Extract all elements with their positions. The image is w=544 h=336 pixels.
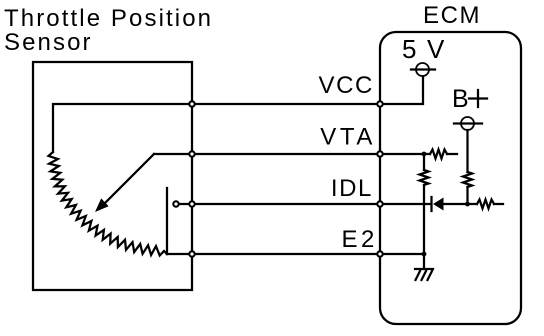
wire E2	[167, 253, 424, 255]
svg-text:VTA: VTA	[320, 124, 376, 151]
resistor R1 (VTA series, horizontal)	[430, 150, 447, 159]
svg-text:V: V	[427, 34, 445, 64]
potentiometer track R (curved zigzag)	[49, 152, 168, 256]
B+ supply symbol	[461, 117, 474, 130]
wire R1 stub	[447, 153, 457, 155]
svg-text:5: 5	[402, 34, 416, 64]
svg-text:ECM: ECM	[423, 2, 481, 29]
contact arm (idle switch)	[166, 188, 168, 254]
node E2 at sensor	[189, 251, 194, 256]
svg-text:Sensor: Sensor	[4, 29, 93, 56]
wire wiper diagonal	[103, 154, 154, 205]
node VTA at sensor	[189, 151, 194, 156]
junction dot E2-ground	[422, 252, 427, 257]
junction dot VTA	[422, 152, 427, 157]
resistor R3 (B+ vertical)	[463, 172, 472, 187]
wire B+ drop	[466, 130, 468, 172]
node VTA at ECM	[377, 151, 382, 156]
node IDL at sensor	[189, 201, 194, 206]
junction dot IDL-B+	[465, 202, 470, 207]
resistor R2 (VTA-IDL vertical)	[420, 170, 429, 185]
svg-text:E2: E2	[341, 226, 378, 253]
diode D1 triangle	[433, 198, 444, 211]
resistor R4 (IDL right, horizontal)	[477, 200, 494, 209]
node E2 at ECM	[377, 251, 382, 256]
ECM box U1	[380, 32, 521, 324]
5V supply symbol	[416, 63, 429, 76]
ground symbol	[423, 254, 425, 269]
svg-text:IDL: IDL	[331, 175, 373, 202]
throttle position sensor box	[33, 62, 192, 290]
svg-text:B: B	[452, 85, 469, 113]
wiper arrowhead	[95, 198, 109, 212]
diode D1 cathode bar	[430, 197, 432, 211]
node VCC at sensor	[189, 101, 194, 106]
node IDL at ECM	[377, 201, 382, 206]
wire diode anode to node	[443, 203, 468, 205]
wire VTA node drop	[423, 154, 425, 170]
wire R2 to IDL and E2	[423, 185, 425, 254]
wire R4 from node and stub	[468, 203, 477, 205]
svg-text:VCC: VCC	[319, 72, 374, 99]
wire VTA	[154, 153, 430, 155]
wire R3 to node	[466, 187, 468, 204]
node IDL contact	[173, 201, 178, 206]
svg-text:Throttle Position: Throttle Position	[4, 5, 213, 32]
wire VCC	[53, 77, 423, 152]
wire IDL	[179, 203, 431, 205]
node VCC at ECM	[377, 101, 382, 106]
